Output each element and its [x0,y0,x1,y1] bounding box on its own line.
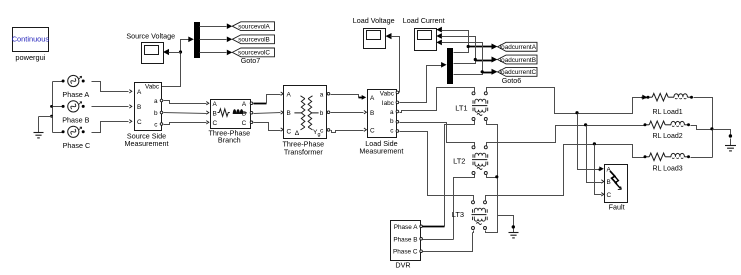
wire to sourcevolB [200,39,227,41]
svg-text:b: b [154,110,158,117]
wire b to LSM B [331,112,364,114]
goto tag loadcurrentB [498,55,538,64]
wire a to LSM A [331,95,359,98]
node bus-ground [50,115,53,118]
wire DVR C riser [424,233,473,252]
svg-text:Load Current: Load Current [403,16,445,25]
wire bus to right ground [713,130,731,135]
wire Phase A to port A [92,82,129,92]
ground source side [38,117,40,133]
wire to loadcurrentA [469,46,492,48]
block DVR [391,221,421,261]
wire fault A tap [578,114,599,170]
linear transformer LT1 [472,92,475,95]
wire branch A bold [254,103,267,105]
wire bus to Phase B [53,106,63,108]
svg-text:powergui: powergui [15,53,45,62]
svg-text:RL Load1: RL Load1 [653,109,683,116]
wire to loadcurrentB [476,60,492,62]
wire branch B to transformer B [254,113,281,114]
goto tag loadcurrentA [498,42,538,51]
wire DVR B [423,239,454,241]
wire bus to Phase C [53,132,63,134]
powergui block [13,28,49,52]
goto tag sourcevolB [232,35,274,44]
node fault B tap [584,123,587,126]
wire b to branch B [164,113,207,114]
svg-text:Iabc: Iabc [382,100,395,107]
svg-text:B: B [287,110,291,117]
wire phase B to LT2 [400,123,475,147]
wire to Source Voltage scope [169,52,181,54]
demux Source Voltage bar [194,22,200,58]
wire c to branch C [164,123,207,125]
svg-text:Goto7: Goto7 [241,56,261,65]
svg-text:loadcurrentB: loadcurrentB [500,57,536,64]
node fault C tap [593,142,596,145]
svg-text:B: B [370,110,374,117]
node neutral junction [495,175,498,178]
wire LT1 sec to DVR A riser [445,121,475,227]
svg-text:LT1: LT1 [455,103,467,112]
AC voltage source Phase B [68,101,79,112]
wire to loadcurrentC [483,72,492,74]
fault lightning icon [610,171,617,184]
svg-text:b: b [390,118,394,125]
wire demux out to scope / loadcurrentB [442,37,476,64]
wire Load3 to right bus [691,157,713,159]
goto tag sourcevolC [232,48,274,57]
svg-text:Branch: Branch [218,136,241,145]
series RL load RL Load2 [644,123,647,126]
svg-text:Phase A: Phase A [394,224,419,231]
svg-text:RL Load3: RL Load3 [653,166,683,173]
ground DVR neutral [513,229,515,233]
svg-text:sourcevolA: sourcevolA [238,24,270,31]
node fault A tap [575,111,578,114]
svg-text:Phase A: Phase A [62,90,89,99]
block Three-Phase Transformer [284,86,327,139]
svg-text:Δ: Δ [295,130,300,137]
wire LT1 sec right to neutral bus [487,121,498,216]
svg-text:B: B [137,104,141,111]
svg-text:a: a [154,98,158,105]
wire a to branch A [164,101,207,104]
svg-text:LT3: LT3 [452,210,464,219]
linear transformer LT2 [472,146,475,149]
wire demux out to scope / loadcurrentC [442,43,483,75]
svg-text:Phase B: Phase B [393,236,417,243]
block Load Side Measurement [368,90,397,138]
block Three-Phase Branch [211,100,251,129]
svg-text:sourcevolB: sourcevolB [238,37,270,44]
wire LT3 sec left stub [473,231,474,233]
goto tag loadcurrentC [498,67,538,76]
svg-text:A: A [213,101,218,108]
source bus wire [52,82,54,133]
svg-text:a: a [390,109,394,116]
series RL load RL Load3 [644,155,647,158]
AC voltage source Phase C [68,126,79,137]
block Source Side Measurement [135,83,162,131]
wire c to LSM C [331,131,364,133]
svg-text:C: C [242,120,247,127]
wire phase A LT1 to RL Load1 [487,88,642,114]
svg-text:C: C [607,192,612,199]
svg-text:DVR: DVR [395,261,410,270]
demux Load Current bar [447,48,453,84]
wire phase B LT2 to RL Load2 [487,126,645,147]
ground load side [730,139,732,146]
wire fault B tap [587,126,602,183]
svg-text:A: A [370,95,375,102]
junction node [481,70,484,73]
block Fault [605,165,628,203]
wire neutral to ground [498,216,514,226]
wire DVR A bold [423,226,445,228]
wire Vabc to Load Voltage scope [391,37,400,93]
svg-text:Measurement: Measurement [359,147,403,156]
svg-text:RL Load2: RL Load2 [653,133,683,140]
svg-text:A: A [242,101,247,108]
wire demux out to scope / loadcurrentA [442,31,469,53]
svg-text:a: a [320,91,324,98]
wire to transformer A [267,95,281,104]
node right bus junction [710,127,713,130]
wire LT3 sec right to neutral [486,216,498,233]
wire fault C tap [595,145,602,195]
wire Load2 to right bus [691,126,713,130]
series RL load RL Load1 [647,96,650,99]
svg-text:g: g [318,132,321,138]
svg-text:C: C [137,119,142,126]
wire bus to Phase A [53,81,63,83]
svg-text:C: C [287,129,292,136]
svg-text:Vabc: Vabc [380,90,395,97]
wire bus to ground [39,116,53,118]
svg-text:Source Voltage: Source Voltage [126,31,175,40]
svg-text:Phase C: Phase C [63,141,91,150]
svg-text:LT2: LT2 [453,157,465,166]
wire phase A to LT1 [400,88,475,113]
wire phase C LT3 to RL Load3 riser [486,145,631,202]
wire DVR C [423,251,445,253]
svg-text:Load Voltage: Load Voltage [353,16,395,25]
wire down to Load3 [631,145,645,158]
linear transformer LT3 [472,201,475,204]
goto tag sourcevolA [232,22,274,31]
wire phase C to LT3 [400,132,474,202]
wire to sourcevolC [200,52,227,54]
wire to sourcevolA [200,26,227,28]
svg-text:B: B [213,111,217,118]
svg-text:Measurement: Measurement [125,139,169,148]
svg-text:Fault: Fault [609,202,625,211]
svg-text:A: A [137,89,142,96]
svg-text:A: A [287,91,292,98]
svg-text:Goto6: Goto6 [502,76,522,85]
svg-text:Phase C: Phase C [393,249,418,256]
wire LT2 sec to DVR B riser [454,175,475,240]
wire Iabc to demux [400,66,442,103]
junction node [467,45,470,48]
svg-text:C: C [370,127,375,134]
wire Phase B to port B [92,106,129,108]
ground load port [729,134,732,137]
wire Vabc source riser [161,40,190,87]
svg-text:C: C [213,120,218,127]
AC voltage source Phase A [68,75,79,86]
svg-text:Transformer: Transformer [284,147,323,156]
node bus-B [50,105,53,108]
transformer winding icon [301,99,305,127]
svg-text:Vabc: Vabc [145,84,160,91]
svg-text:b: b [320,110,324,117]
wire Phase C to port C [92,122,129,133]
wire branch C to transformer C [254,123,281,131]
svg-text:Phase B: Phase B [62,116,89,125]
svg-text:B: B [607,179,611,186]
ground DVR neutral port [512,225,515,228]
junction node [474,58,477,61]
svg-text:loadcurrentA: loadcurrentA [500,44,537,51]
wire LT2 sec right to neutral bus [487,175,498,178]
junction node scope tap [179,50,182,53]
wire Load1 to right bus [694,98,713,158]
branch RL icon [218,109,230,116]
svg-text:Continuous: Continuous [12,34,50,43]
